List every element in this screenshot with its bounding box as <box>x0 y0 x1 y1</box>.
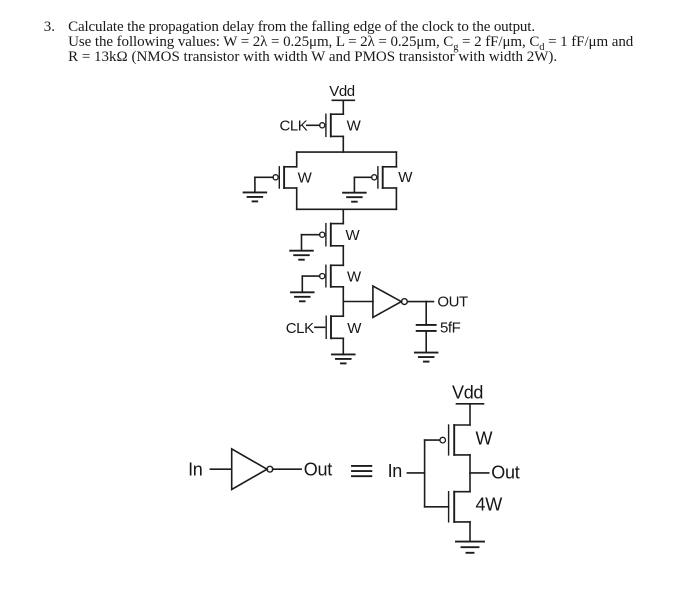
svg-text:4W: 4W <box>476 495 503 515</box>
wire gate to M8 <box>425 506 449 508</box>
label CLK (M1 gate) <box>280 118 308 135</box>
label In (left) <box>188 460 202 480</box>
svg-text:W: W <box>347 320 362 337</box>
wire M1 source to box top <box>342 136 344 152</box>
label W (M7) <box>476 429 493 449</box>
label W (M2) <box>298 169 313 186</box>
label W (M5) <box>347 269 362 286</box>
ground (C1) <box>415 353 438 362</box>
svg-text:W: W <box>298 169 313 186</box>
op-amp U1 (output inverter) <box>373 286 407 317</box>
label W (M3) <box>398 169 413 186</box>
ground (M6) <box>332 354 355 363</box>
capacitor C1 (5fF) <box>417 302 436 353</box>
wire gate to M7 bubble <box>425 439 440 441</box>
label W (M4) <box>346 227 361 244</box>
op-amp U2 (inverter symbol) <box>232 449 273 490</box>
transistor M8 (NMOS 4W) <box>449 492 470 522</box>
svg-text:W: W <box>398 169 413 186</box>
label 5fF <box>440 320 461 337</box>
wire M3 gate to ground <box>354 177 371 192</box>
label Out (right) <box>491 463 519 483</box>
svg-text:In: In <box>388 461 402 481</box>
wire Vdd to M7 <box>469 404 471 425</box>
ground (bottom figure) <box>456 542 484 553</box>
svg-text:W: W <box>347 269 362 286</box>
wire CLK to M6 gate <box>315 326 325 328</box>
wire M5 gate to ground <box>302 276 319 292</box>
wire node to inverter input <box>343 301 373 303</box>
transistor M5 (PMOS, series chain lower) <box>320 265 344 287</box>
wire CLK to M1 gate bubble <box>307 124 320 126</box>
wire M7 drain to M8 drain <box>469 455 471 492</box>
Vdd rail (bottom figure) <box>457 403 484 405</box>
wire M8 source to ground <box>469 522 471 542</box>
svg-text:W: W <box>347 117 362 134</box>
svg-text:CLK: CLK <box>280 118 308 135</box>
wire box bottom to M4 <box>342 209 344 223</box>
transistor M3 (PMOS, right of box) <box>372 167 397 188</box>
svg-text:OUT: OUT <box>437 294 468 311</box>
label W (M6) <box>347 320 362 337</box>
wire M6 source to ground <box>342 338 344 354</box>
wire U2 output to Out <box>273 468 302 470</box>
transistor M1 (PMOS, CLK precharge) <box>320 114 344 136</box>
wire M5 to node and M6 <box>342 287 344 316</box>
svg-text:W: W <box>346 227 361 244</box>
wire M2 gate to ground <box>255 177 273 192</box>
svg-text:In: In <box>188 460 202 480</box>
wire node to Out <box>470 472 489 474</box>
label Out (left) <box>304 460 332 480</box>
transistor M7 (PMOS W) <box>440 425 470 455</box>
wire In to gate node <box>407 472 424 474</box>
label W (M1) <box>347 117 362 134</box>
equivalence symbol <box>352 466 371 476</box>
node box: parallel branch rectangle <box>297 152 397 209</box>
wire M4 to M5 <box>342 246 344 265</box>
label OUT <box>437 294 468 311</box>
problem statement text <box>44 19 55 36</box>
svg-text:CLK: CLK <box>286 320 314 337</box>
Vdd label (bottom figure) <box>452 382 483 402</box>
Vdd label (top circuit) <box>329 83 354 100</box>
ground (M2 gate) <box>244 192 267 201</box>
svg-text:Vdd: Vdd <box>452 382 483 402</box>
label 4W (M8) <box>476 495 503 515</box>
wire Vdd to M1 drain <box>342 100 344 114</box>
label In (right) <box>388 461 402 481</box>
wire M4 gate to ground <box>302 235 320 251</box>
wire gate vertical <box>424 440 426 507</box>
ground (M5 gate) <box>291 292 314 301</box>
ground (M3 gate) <box>343 193 366 202</box>
wire In to U2 <box>210 468 231 470</box>
Vdd rail <box>332 99 354 101</box>
wire U1 output to OUT <box>407 301 433 303</box>
label CLK (M6 gate) <box>286 320 314 337</box>
ground (M4 gate) <box>290 251 313 260</box>
svg-text:W: W <box>476 429 493 449</box>
transistor M2 (PMOS, left of box) <box>273 167 297 188</box>
transistor M6 (NMOS, CLK evaluate) <box>326 316 343 338</box>
svg-text:Out: Out <box>304 460 332 480</box>
svg-text:Out: Out <box>491 463 519 483</box>
svg-text:Vdd: Vdd <box>329 83 354 100</box>
svg-text:5fF: 5fF <box>440 320 461 337</box>
transistor M4 (PMOS, series chain upper) <box>320 224 344 246</box>
